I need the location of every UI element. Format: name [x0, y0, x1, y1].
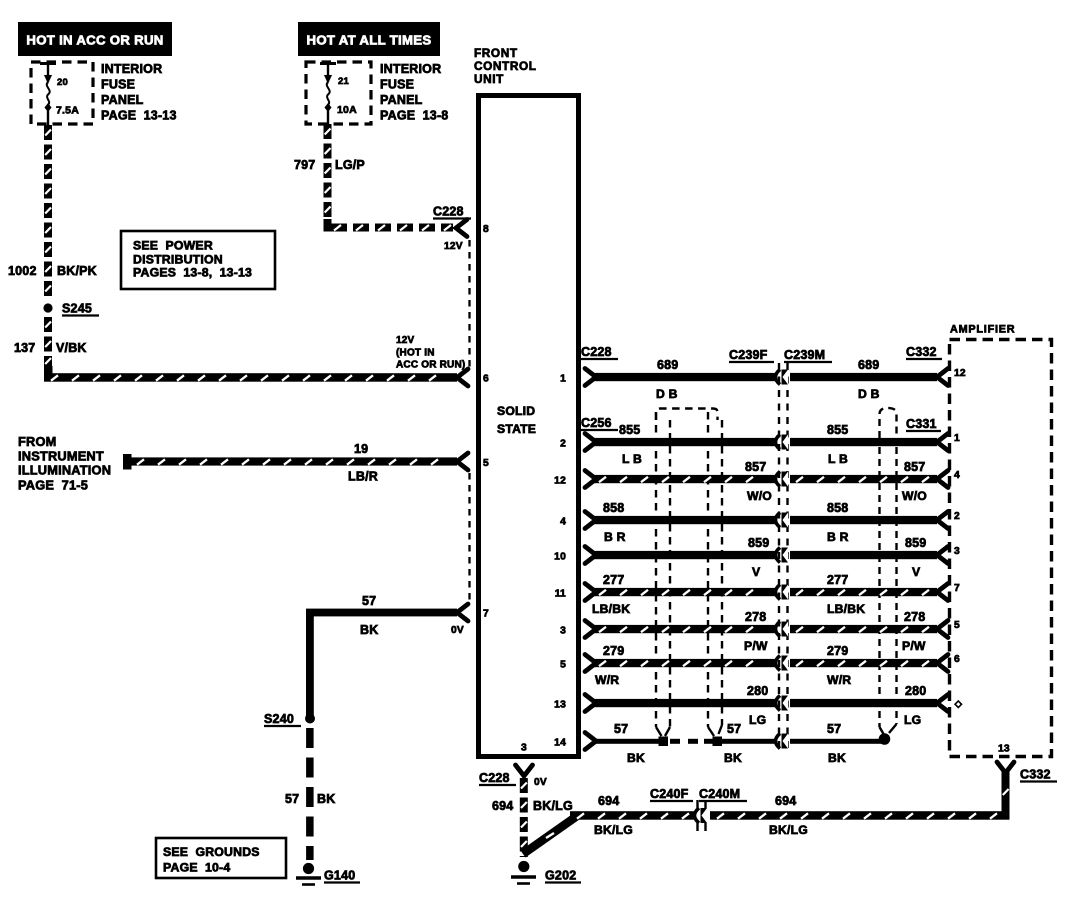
svg-text:V: V	[752, 565, 761, 579]
inline connector C239 at row 858	[776, 513, 781, 528]
wire 280 LG right half	[790, 699, 937, 707]
amplifier box (dashed)	[950, 340, 1052, 757]
svg-text:UNIT: UNIT	[474, 72, 504, 86]
inline connector C239 at row 857	[776, 472, 781, 487]
svg-text:LB/R: LB/R	[348, 470, 378, 484]
wire 694 riser to C332	[1002, 772, 1010, 819]
svg-text:C239M: C239M	[784, 348, 825, 362]
svg-text:CONTROL: CONTROL	[474, 59, 537, 73]
svg-text:C332: C332	[1020, 768, 1051, 782]
svg-text:12: 12	[554, 476, 566, 487]
svg-text:ACC OR RUN): ACC OR RUN)	[396, 360, 465, 371]
svg-text:277: 277	[827, 573, 848, 587]
wire 859 V right half	[790, 551, 937, 559]
svg-text:57: 57	[827, 722, 841, 736]
svg-text:1: 1	[954, 433, 960, 444]
svg-text:C256: C256	[581, 416, 612, 430]
svg-text:S240: S240	[264, 712, 294, 726]
svg-text:12V: 12V	[396, 335, 415, 346]
front control unit box	[479, 96, 579, 757]
svg-text:0V: 0V	[534, 777, 547, 788]
svg-text:C331: C331	[906, 417, 937, 431]
svg-text:PAGE 10-4: PAGE 10-4	[163, 861, 230, 875]
svg-text:L B: L B	[622, 452, 642, 466]
FCU chevron row 855	[585, 434, 596, 451]
svg-text:BK: BK	[317, 792, 335, 806]
wire 694 BK/LG vertical	[520, 778, 528, 793]
wire 57 BK left half	[593, 739, 662, 744]
svg-text:694: 694	[775, 794, 796, 808]
svg-text:C228: C228	[479, 771, 510, 785]
connector C239 dashed lines	[778, 363, 780, 748]
svg-text:13: 13	[554, 700, 566, 711]
wire 137 V/BK vertical segment	[44, 317, 52, 332]
svg-text:D B: D B	[858, 387, 880, 401]
wire 277 LB/BK right half	[790, 588, 937, 596]
amp chevron row 857	[937, 471, 948, 488]
svg-text:LG/P: LG/P	[335, 158, 365, 172]
wire 19 LB/R horizontal	[130, 457, 457, 465]
svg-text:G202: G202	[545, 869, 576, 883]
svg-text:PAGES 13-8, 13-13: PAGES 13-8, 13-13	[133, 266, 252, 280]
svg-text:C332: C332	[906, 345, 937, 359]
wire 279 W/R left half	[593, 659, 775, 667]
wire 278 P/W left half	[593, 625, 775, 633]
wire 694 BK/LG horizontal left of C240	[570, 811, 694, 820]
splice S245	[43, 303, 52, 312]
fuse panel box F21 (dashed)	[306, 62, 371, 124]
svg-text:C239F: C239F	[729, 348, 768, 362]
shield drain junction (square)	[659, 737, 669, 747]
FCU chevron row 57	[585, 733, 596, 750]
svg-text:FUSE: FUSE	[380, 78, 414, 92]
svg-text:HOT AT ALL TIMES: HOT AT ALL TIMES	[307, 33, 432, 48]
svg-text:S245: S245	[62, 302, 92, 316]
see grounds box	[156, 838, 286, 878]
amp chevron row 279	[937, 655, 948, 672]
svg-text:(HOT IN: (HOT IN	[396, 348, 435, 359]
amp chevron row 277	[937, 584, 948, 601]
ground G202	[518, 861, 529, 872]
wire 859 V left half	[593, 551, 775, 559]
svg-text:C240F: C240F	[650, 787, 689, 801]
svg-text:11: 11	[555, 589, 566, 600]
svg-text:14: 14	[554, 738, 566, 749]
svg-text:LB/BK: LB/BK	[827, 602, 865, 616]
svg-text:10: 10	[554, 552, 566, 563]
svg-text:D B: D B	[656, 387, 678, 401]
svg-text:0V: 0V	[451, 625, 464, 636]
svg-text:857: 857	[904, 460, 925, 474]
svg-text:1: 1	[560, 374, 566, 385]
svg-text:7.5A: 7.5A	[56, 105, 79, 117]
svg-text:3: 3	[521, 743, 527, 754]
FCU chevron row 277	[585, 584, 596, 601]
wire 689 D B left half	[593, 373, 775, 381]
inline connector C239 at row 279	[776, 656, 781, 671]
svg-text:4: 4	[954, 470, 960, 481]
svg-text:57: 57	[727, 722, 741, 736]
svg-text:7: 7	[954, 583, 960, 594]
svg-text:21: 21	[338, 76, 349, 87]
svg-text:13: 13	[998, 744, 1010, 755]
svg-text:689: 689	[657, 358, 678, 372]
svg-text:ILLUMINATION: ILLUMINATION	[18, 463, 111, 478]
svg-text:57: 57	[362, 594, 376, 608]
C228 connector dashed line (pins 5-7)	[468, 473, 470, 603]
wire 1002 BK/PK vertical segment	[44, 125, 52, 140]
svg-text:279: 279	[603, 644, 624, 658]
svg-text:W/R: W/R	[827, 673, 851, 687]
wire 797 horizontal run to C228	[331, 224, 347, 232]
svg-text:PAGE 71-5: PAGE 71-5	[18, 478, 88, 493]
svg-text:4: 4	[560, 517, 566, 528]
svg-text:2: 2	[954, 511, 960, 522]
svg-text:PAGE 13-13: PAGE 13-13	[101, 109, 177, 123]
svg-text:HOT IN ACC OR RUN: HOT IN ACC OR RUN	[26, 33, 163, 48]
inline connector C239 at row 277	[776, 585, 781, 600]
inline connector C239 at row 859	[776, 548, 781, 563]
svg-text:57: 57	[614, 722, 628, 736]
FCU chevron row 280	[585, 695, 596, 712]
see power distribution box	[121, 231, 275, 289]
svg-text:LG: LG	[904, 713, 921, 727]
header box HOT IN ACC OR RUN	[18, 22, 172, 56]
pin 6 chevron	[457, 369, 468, 386]
shield drain loop (right)	[880, 408, 897, 438]
svg-text:FUSE: FUSE	[101, 78, 135, 92]
svg-text:278: 278	[904, 610, 925, 624]
inline connector C239 at row 689	[776, 370, 781, 385]
svg-text:B R: B R	[604, 530, 626, 544]
svg-text:6: 6	[954, 654, 960, 665]
svg-text:277: 277	[603, 573, 624, 587]
shield drain junction 3 (round)	[879, 733, 891, 745]
pin 5 chevron	[457, 453, 468, 470]
FCU chevron row 857	[585, 471, 596, 488]
fuse panel box F20 (dashed)	[31, 62, 93, 124]
svg-text:BK: BK	[828, 751, 846, 765]
svg-text:5: 5	[560, 660, 566, 671]
FCU chevron row 278	[585, 621, 596, 638]
shield drain wire A	[655, 412, 657, 727]
svg-text:855: 855	[619, 423, 640, 437]
svg-text:W/O: W/O	[902, 489, 927, 503]
wire 797 corner	[324, 219, 332, 232]
ground G140	[303, 863, 314, 874]
shield drain wire D	[721, 420, 723, 725]
svg-text:5: 5	[954, 620, 960, 631]
shield drain staple (left)	[656, 409, 718, 421]
wire 694 diagonal segment	[523, 816, 577, 854]
svg-text:BK/LG: BK/LG	[533, 799, 573, 813]
svg-text:L B: L B	[828, 452, 848, 466]
wire 57 BK dashed to ground	[306, 728, 314, 748]
svg-text:BK/LG: BK/LG	[769, 823, 808, 837]
shield drain wire E	[878, 447, 880, 727]
svg-text:C240M: C240M	[699, 787, 740, 801]
svg-text:797: 797	[294, 158, 315, 172]
wire 858 B R right half	[790, 516, 937, 524]
svg-text:1002: 1002	[8, 264, 37, 278]
inline connector C239 at row 57	[776, 734, 781, 749]
svg-text:855: 855	[827, 423, 848, 437]
svg-text:W/R: W/R	[595, 673, 619, 687]
wire to pin 6 horizontal	[44, 373, 457, 382]
FCU chevron row 689	[585, 369, 596, 386]
FCU chevron row 279	[585, 655, 596, 672]
svg-text:857: 857	[745, 460, 766, 474]
amp chevron row 280	[937, 695, 948, 712]
inline connector C239 at row 278	[776, 622, 781, 637]
amp chevron row 859	[937, 547, 948, 564]
svg-text:PAGE 13-8: PAGE 13-8	[380, 109, 448, 123]
svg-text:6: 6	[483, 374, 489, 385]
C228 connector dashed line (pins 8-6)	[468, 240, 470, 367]
shield drain wire C	[707, 412, 709, 727]
fuse F20 symbol	[40, 62, 56, 65]
shield drain wire B	[669, 420, 671, 727]
amp pin 8 (diamond mark)	[955, 701, 962, 708]
svg-text:10A: 10A	[337, 104, 357, 116]
svg-text:BK/LG: BK/LG	[594, 823, 633, 837]
header box HOT AT ALL TIMES	[298, 22, 440, 56]
wire 278 P/W right half	[790, 625, 937, 633]
connector C228 pin 8 chevron	[456, 220, 467, 237]
wire 57 BK horizontal	[306, 609, 457, 617]
amp chevron row 278	[937, 621, 948, 638]
svg-text:12V: 12V	[444, 241, 463, 252]
svg-text:689: 689	[858, 358, 879, 372]
wire 19 start stub	[123, 454, 132, 470]
splice S240	[305, 714, 315, 724]
svg-text:858: 858	[603, 501, 624, 515]
svg-text:G140: G140	[324, 869, 355, 883]
svg-text:57: 57	[285, 792, 299, 806]
amp chevron row 689	[937, 369, 948, 386]
wire 855 L B left half	[593, 438, 775, 446]
svg-text:280: 280	[747, 684, 768, 698]
FCU chevron row 859	[585, 547, 596, 564]
wire 57 BK right half	[790, 739, 886, 744]
svg-text:859: 859	[748, 536, 769, 550]
svg-text:C228: C228	[433, 205, 464, 219]
svg-text:859: 859	[905, 536, 926, 550]
svg-text:V/BK: V/BK	[56, 341, 87, 355]
svg-text:20: 20	[57, 77, 68, 88]
svg-text:BK: BK	[724, 751, 742, 765]
svg-text:8: 8	[483, 224, 489, 235]
svg-text:V: V	[912, 565, 921, 579]
svg-text:12: 12	[954, 368, 966, 379]
svg-text:INTERIOR: INTERIOR	[380, 62, 441, 76]
connector C228 bottom chevron	[516, 765, 533, 776]
shield drain junction 2 (square)	[713, 737, 723, 747]
amp chevron row 858	[937, 512, 948, 529]
wire 855 L B right half	[790, 438, 937, 446]
svg-text:SOLID: SOLID	[497, 404, 535, 418]
svg-text:694: 694	[492, 799, 513, 813]
svg-text:280: 280	[905, 684, 926, 698]
inline connector C239 at row 855	[776, 435, 781, 450]
wire 858 B R left half	[593, 516, 775, 524]
wire 857 W/O right half	[790, 475, 937, 483]
pin 7 chevron	[457, 604, 468, 621]
svg-text:SEE GROUNDS: SEE GROUNDS	[163, 845, 260, 859]
svg-text:FROM: FROM	[18, 434, 56, 449]
fuse F21 symbol	[320, 62, 336, 65]
inline connector C240 pair	[695, 808, 700, 823]
svg-text:LB/BK: LB/BK	[592, 602, 630, 616]
svg-text:P/W: P/W	[744, 639, 768, 653]
wire 694 BK/LG horizontal right of C240	[710, 811, 1010, 820]
wire 689 D B right half	[790, 373, 937, 381]
svg-text:858: 858	[827, 501, 848, 515]
svg-text:279: 279	[827, 644, 848, 658]
svg-text:PANEL: PANEL	[380, 93, 423, 107]
svg-text:DISTRIBUTION: DISTRIBUTION	[133, 253, 223, 267]
svg-text:BK/PK: BK/PK	[57, 264, 97, 278]
svg-text:SEE POWER: SEE POWER	[133, 239, 213, 253]
wire 277 LB/BK left half	[593, 588, 775, 596]
svg-text:STATE: STATE	[497, 422, 536, 436]
amp chevron row 855	[937, 434, 948, 451]
inline connector C239 at row 280	[776, 696, 781, 711]
svg-text:3: 3	[954, 546, 960, 557]
connector C332 bottom chevron	[997, 762, 1014, 773]
svg-text:C228: C228	[581, 345, 612, 359]
wire 279 W/R right half	[790, 659, 937, 667]
svg-text:PANEL: PANEL	[101, 93, 144, 107]
svg-text:AMPLIFIER: AMPLIFIER	[950, 324, 1015, 336]
svg-text:137: 137	[14, 341, 35, 355]
wire 280 LG left half	[593, 699, 775, 707]
svg-text:B R: B R	[827, 530, 849, 544]
svg-text:W/O: W/O	[747, 489, 772, 503]
svg-text:P/W: P/W	[902, 639, 926, 653]
svg-text:2: 2	[560, 439, 566, 450]
svg-text:3: 3	[560, 626, 566, 637]
svg-text:INSTRUMENT: INSTRUMENT	[18, 449, 104, 464]
wire 57 BK vertical to S240	[306, 609, 314, 717]
svg-text:BK: BK	[627, 751, 645, 765]
svg-text:LG: LG	[749, 713, 766, 727]
svg-text:278: 278	[745, 610, 766, 624]
svg-text:5: 5	[483, 458, 489, 469]
svg-text:694: 694	[598, 794, 619, 808]
wire 137 corner	[44, 366, 53, 378]
svg-text:7: 7	[483, 609, 489, 620]
svg-text:BK: BK	[360, 623, 378, 637]
svg-text:FRONT: FRONT	[474, 46, 518, 60]
wire 857 W/O left half	[593, 475, 775, 483]
svg-text:19: 19	[354, 442, 368, 456]
shield drain wire F	[895, 447, 897, 724]
svg-text:INTERIOR: INTERIOR	[101, 62, 162, 76]
wire 797 LG/P vertical segment	[324, 124, 332, 139]
FCU chevron row 858	[585, 512, 596, 529]
